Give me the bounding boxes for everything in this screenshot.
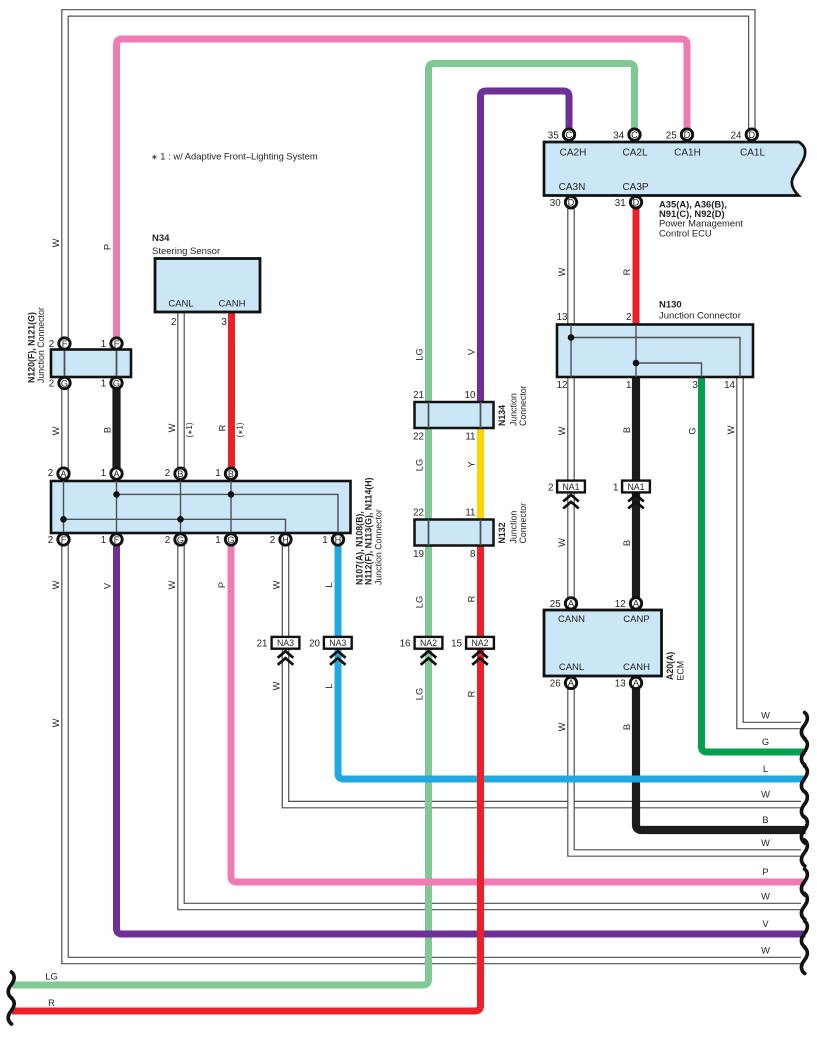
- svg-text:1: 1: [101, 468, 106, 479]
- svg-text:CA1L: CA1L: [740, 148, 765, 159]
- break squiggle right L wire: [801, 766, 807, 792]
- junction dot 2F bus: [60, 516, 67, 523]
- svg-text:F: F: [114, 535, 120, 545]
- svg-text:CA2L: CA2L: [622, 148, 647, 159]
- svg-text:N34: N34: [152, 233, 170, 244]
- svg-text:A: A: [633, 678, 640, 688]
- svg-text:∗ 1 : w/ Adaptive Front–Lighti: ∗ 1 : w/ Adaptive Front–Lighting System: [151, 151, 318, 162]
- pin 2G N120: [59, 377, 70, 388]
- svg-text:L: L: [324, 683, 334, 688]
- pin 2F junction: [58, 534, 69, 545]
- svg-text:A: A: [60, 469, 67, 479]
- svg-text:CANN: CANN: [558, 614, 585, 625]
- svg-text:2: 2: [171, 317, 176, 328]
- svg-text:V: V: [467, 348, 477, 355]
- svg-text:16: 16: [400, 639, 411, 650]
- svg-text:Junction Connector: Junction Connector: [36, 307, 46, 383]
- svg-text:3: 3: [693, 380, 699, 391]
- svg-text:2: 2: [49, 339, 54, 350]
- svg-text:R: R: [467, 690, 477, 697]
- wire V junction 1F to right edge: [117, 541, 806, 934]
- svg-text:F: F: [61, 535, 67, 545]
- junction connector N134 box: [415, 402, 494, 428]
- break squiggle right P wire: [801, 869, 807, 895]
- chevron NA3 no.21: [278, 651, 294, 665]
- svg-text:CANL: CANL: [559, 662, 584, 673]
- svg-text:20: 20: [309, 639, 320, 650]
- svg-text:A: A: [568, 599, 575, 609]
- svg-text:2: 2: [48, 535, 53, 546]
- break squiggle left R wire: [8, 998, 14, 1024]
- wire P CA1H loop to N120 1F: [117, 39, 688, 340]
- pin 13(A) ECM CANH: [630, 677, 641, 688]
- svg-text:N112(F), N113(G), N114(H): N112(F), N113(G), N114(H): [363, 477, 373, 585]
- svg-text:12: 12: [557, 380, 568, 391]
- pin 25(A) ECM CANN: [565, 598, 576, 609]
- pin 1G junction: [225, 534, 236, 545]
- svg-text:22: 22: [413, 432, 424, 443]
- svg-text:B: B: [622, 540, 632, 546]
- svg-text:1: 1: [101, 339, 106, 350]
- svg-text:R: R: [218, 424, 228, 431]
- chevron NA1 no.2: [563, 495, 579, 509]
- junction connector N130 box: [557, 325, 753, 378]
- break squiggle right W wire: [801, 792, 807, 818]
- svg-text:W: W: [167, 580, 177, 589]
- junction dot 1A bus: [113, 491, 120, 498]
- svg-text:Connector: Connector: [518, 385, 528, 426]
- svg-text:3: 3: [222, 317, 228, 328]
- svg-text:D: D: [568, 198, 575, 208]
- connector NA1 no.1: [622, 481, 650, 493]
- svg-text:21: 21: [413, 390, 424, 401]
- svg-text:NA1: NA1: [562, 482, 579, 492]
- connector N34 Steering Sensor box: [155, 259, 260, 313]
- svg-text:(∗1): (∗1): [185, 422, 194, 437]
- wire LG CA2L loop to N134 pin21: [429, 64, 635, 403]
- svg-text:25: 25: [666, 131, 677, 142]
- svg-text:21: 21: [257, 639, 268, 650]
- svg-text:W: W: [557, 426, 567, 435]
- svg-text:W: W: [557, 722, 567, 731]
- wire W ECU CA3N pin30 to N130 pin13: [567, 204, 575, 326]
- svg-text:22: 22: [413, 508, 424, 519]
- svg-text:A: A: [113, 469, 120, 479]
- svg-text:Y: Y: [467, 461, 477, 467]
- ECM A20(A) box: [544, 610, 662, 676]
- svg-text:1: 1: [215, 535, 220, 546]
- svg-text:B: B: [103, 427, 113, 433]
- svg-text:L: L: [763, 764, 768, 774]
- svg-text:A: A: [568, 678, 575, 688]
- svg-text:2: 2: [548, 483, 553, 494]
- svg-text:NA3: NA3: [329, 638, 346, 648]
- svg-text:LG: LG: [415, 596, 425, 608]
- svg-text:P: P: [103, 244, 113, 250]
- svg-text:11: 11: [465, 432, 475, 443]
- svg-text:2: 2: [165, 535, 170, 546]
- svg-text:H: H: [335, 535, 342, 545]
- chevron NA3 no.20: [330, 651, 346, 665]
- svg-text:35: 35: [548, 131, 559, 142]
- pin 35(C) ECU CA2H: [563, 129, 574, 140]
- break squiggle right G wire: [801, 739, 807, 765]
- svg-text:2: 2: [49, 379, 54, 390]
- svg-text:ECM: ECM: [676, 661, 686, 681]
- pin 2B junction: [175, 468, 186, 479]
- svg-text:P: P: [762, 867, 768, 877]
- svg-text:L: L: [324, 582, 334, 587]
- svg-text:31: 31: [615, 198, 626, 209]
- chevron NA2 no.16: [421, 651, 437, 665]
- svg-text:W: W: [761, 838, 770, 848]
- svg-text:H: H: [282, 535, 289, 545]
- svg-text:W: W: [272, 681, 282, 690]
- svg-text:R: R: [48, 998, 55, 1008]
- svg-text:CA3P: CA3P: [622, 182, 648, 193]
- wire R N132 pin8 to bottom left edge: [12, 546, 481, 1012]
- svg-text:W: W: [51, 426, 61, 435]
- junction connector N107/N108/N112/N113/N114 box: [51, 481, 351, 533]
- svg-text:V: V: [103, 582, 113, 589]
- svg-text:NA3: NA3: [277, 638, 294, 648]
- junction connector N132 box: [415, 520, 494, 546]
- svg-text:13: 13: [557, 312, 568, 323]
- svg-text:G: G: [227, 535, 234, 545]
- svg-text:F: F: [62, 339, 68, 349]
- svg-text:W: W: [51, 580, 61, 589]
- svg-text:G: G: [113, 378, 120, 388]
- pin 24(D) ECU CA1L: [746, 129, 757, 140]
- svg-text:D: D: [684, 130, 691, 140]
- pin 1F junction: [111, 534, 122, 545]
- svg-text:LG: LG: [415, 459, 425, 471]
- svg-text:CA2H: CA2H: [560, 148, 587, 159]
- pin 34(C) ECU CA2L: [629, 129, 640, 140]
- svg-text:2: 2: [626, 312, 631, 323]
- svg-text:W: W: [761, 711, 770, 721]
- svg-text:W: W: [272, 580, 282, 589]
- svg-text:D: D: [633, 198, 640, 208]
- connector NA3 no.20: [324, 637, 352, 649]
- wire B N130 pin1 via NA1 to ECM CANP 12: [632, 377, 640, 601]
- svg-text:8: 8: [470, 549, 476, 560]
- svg-text:CANH: CANH: [219, 299, 246, 310]
- svg-text:2: 2: [270, 535, 275, 546]
- break squiggle right V wire: [801, 921, 807, 947]
- pin 2H junction: [280, 534, 291, 545]
- chevron NA1 no.1: [628, 495, 644, 509]
- pin 2G junction: [175, 534, 186, 545]
- connector NA2 no.16: [415, 637, 443, 649]
- svg-text:F: F: [114, 339, 120, 349]
- svg-text:N134: N134: [497, 405, 507, 426]
- svg-text:W: W: [557, 267, 567, 276]
- svg-text:N130: N130: [659, 300, 682, 311]
- svg-text:1: 1: [626, 380, 631, 391]
- svg-text:A20(A): A20(A): [665, 652, 675, 680]
- svg-text:LG: LG: [45, 972, 57, 982]
- wire R ECU CA3P pin31 to N130 pin2: [633, 204, 640, 326]
- svg-text:1: 1: [322, 535, 327, 546]
- svg-text:1: 1: [215, 468, 220, 479]
- svg-text:LG: LG: [415, 348, 425, 360]
- svg-text:14: 14: [724, 380, 735, 391]
- wire W ECM CANL 26 to bottom: [571, 685, 801, 853]
- wire V CA2H loop to N134 pin10: [481, 91, 570, 402]
- svg-text:15: 15: [451, 639, 462, 650]
- svg-text:Control ECU: Control ECU: [659, 227, 712, 238]
- svg-text:B: B: [177, 469, 183, 479]
- wire W N34 CANL pin2 to junction 2B: [177, 312, 185, 470]
- svg-text:CA3N: CA3N: [559, 182, 586, 193]
- svg-text:C: C: [631, 130, 638, 140]
- junction connector N120/N121 box: [51, 350, 131, 378]
- connector NA3 no.21: [272, 637, 300, 649]
- svg-text:A: A: [633, 599, 640, 609]
- pin 2F N120: [59, 338, 70, 349]
- svg-text:W: W: [726, 425, 736, 434]
- svg-text:25: 25: [550, 599, 561, 610]
- svg-text:2: 2: [165, 468, 170, 479]
- svg-text:W: W: [761, 946, 770, 956]
- svg-text:W: W: [761, 790, 770, 800]
- svg-text:D: D: [748, 130, 755, 140]
- svg-text:CANL: CANL: [168, 299, 193, 310]
- svg-text:G: G: [688, 427, 698, 434]
- wire W N130 pin14 to right edge: [740, 377, 801, 726]
- svg-text:W: W: [51, 238, 61, 247]
- svg-text:B: B: [762, 815, 768, 825]
- break squiggle right W wire: [801, 713, 807, 739]
- svg-text:W: W: [167, 423, 177, 432]
- svg-text:C: C: [566, 130, 573, 140]
- svg-text:G: G: [177, 535, 184, 545]
- connector NA1 no.2: [557, 481, 585, 493]
- pin 2A junction: [58, 468, 69, 479]
- pin 1H junction: [332, 534, 343, 545]
- svg-text:NA1: NA1: [627, 482, 644, 492]
- svg-text:(∗1): (∗1): [235, 422, 244, 437]
- svg-text:W: W: [761, 892, 770, 902]
- svg-text:NA2: NA2: [420, 638, 437, 648]
- wire G N130 pin3 to right edge: [702, 377, 806, 752]
- svg-text:CANH: CANH: [623, 662, 650, 673]
- svg-text:34: 34: [613, 131, 624, 142]
- svg-text:Junction: Junction: [509, 511, 519, 544]
- svg-text:B: B: [622, 724, 632, 730]
- svg-text:R: R: [622, 268, 632, 275]
- svg-text:G: G: [61, 378, 68, 388]
- pin 31(D) ECU CA3P: [630, 197, 641, 208]
- svg-text:Junction: Junction: [509, 393, 519, 426]
- wire W junction 2G down to bottom: [181, 541, 801, 907]
- svg-text:CANP: CANP: [623, 614, 649, 625]
- svg-text:W: W: [51, 718, 61, 727]
- svg-text:2: 2: [48, 468, 53, 479]
- pin 1F N120: [111, 338, 122, 349]
- svg-text:30: 30: [550, 198, 561, 209]
- svg-text:19: 19: [413, 549, 424, 560]
- svg-text:1: 1: [101, 535, 106, 546]
- svg-text:R: R: [467, 595, 477, 602]
- wire LG N132 pin19 to bottom left edge: [12, 546, 429, 986]
- svg-text:P: P: [217, 582, 227, 588]
- svg-text:11: 11: [465, 508, 475, 519]
- junction dot N130 pin2 bus: [633, 360, 640, 367]
- svg-text:W: W: [557, 538, 567, 547]
- svg-text:Junction Connector: Junction Connector: [659, 311, 741, 322]
- svg-text:B: B: [228, 469, 234, 479]
- break squiggle right W wire: [801, 948, 807, 974]
- svg-text:10: 10: [465, 390, 476, 401]
- pin 30(D) ECU CA3N: [565, 197, 576, 208]
- svg-text:Steering Sensor: Steering Sensor: [152, 246, 220, 257]
- chevron NA2 no.15: [472, 651, 488, 665]
- break squiggle right W wire: [801, 894, 807, 920]
- wire P junction 1G to right edge: [231, 541, 806, 882]
- svg-text:V: V: [762, 919, 769, 929]
- break squiggle right W wire: [801, 840, 807, 866]
- svg-text:LG: LG: [415, 688, 425, 700]
- junction dot 1B bus: [228, 491, 235, 498]
- connector NA2 no.15: [466, 637, 494, 649]
- pin 12(A) ECM CANP: [630, 598, 641, 609]
- wire B N120 1G to junction 1A: [112, 385, 120, 470]
- svg-text:1: 1: [613, 483, 618, 494]
- wire Y N134 pin11 to N132 pin11: [477, 428, 484, 520]
- svg-text:N132: N132: [497, 522, 507, 543]
- wire B ECM CANH 13 to right edge: [636, 685, 806, 830]
- wire R N34 CANH pin3 to junction 1B: [228, 312, 235, 470]
- svg-text:12: 12: [615, 599, 626, 610]
- pin 26(A) ECM CANL: [565, 677, 576, 688]
- junction dot 2G bus: [177, 516, 184, 523]
- svg-text:Connector: Connector: [518, 503, 528, 544]
- wire W junction 2H via NA3 to bottom: [286, 541, 802, 805]
- pin 25(D) ECU CA1H: [681, 129, 692, 140]
- svg-text:1: 1: [101, 379, 106, 390]
- break squiggle left LG wire: [8, 972, 14, 998]
- svg-text:13: 13: [615, 679, 626, 690]
- wire LG N134 pin22 to N132 pin22: [425, 428, 432, 520]
- svg-text:24: 24: [731, 131, 742, 142]
- svg-text:NA2: NA2: [471, 638, 488, 648]
- pin 1B junction: [225, 468, 236, 479]
- break squiggle right B wire: [801, 817, 807, 843]
- svg-text:B: B: [622, 427, 632, 433]
- ECU A35/A36/N91/N92 Power Management Control ECU box: [544, 142, 805, 196]
- wire L junction 1H via NA3 to right edge: [338, 541, 806, 779]
- svg-text:CA1H: CA1H: [674, 148, 701, 159]
- svg-text:Junction Connector: Junction Connector: [374, 509, 384, 585]
- wire W N130 pin12 via NA1 to ECM CANN 25: [567, 377, 575, 601]
- pin 1A junction: [111, 468, 122, 479]
- pin 1G N120: [111, 377, 122, 388]
- svg-text:26: 26: [550, 679, 561, 690]
- junction dot N130 pin13 bus: [568, 334, 575, 341]
- svg-text:G: G: [762, 737, 769, 747]
